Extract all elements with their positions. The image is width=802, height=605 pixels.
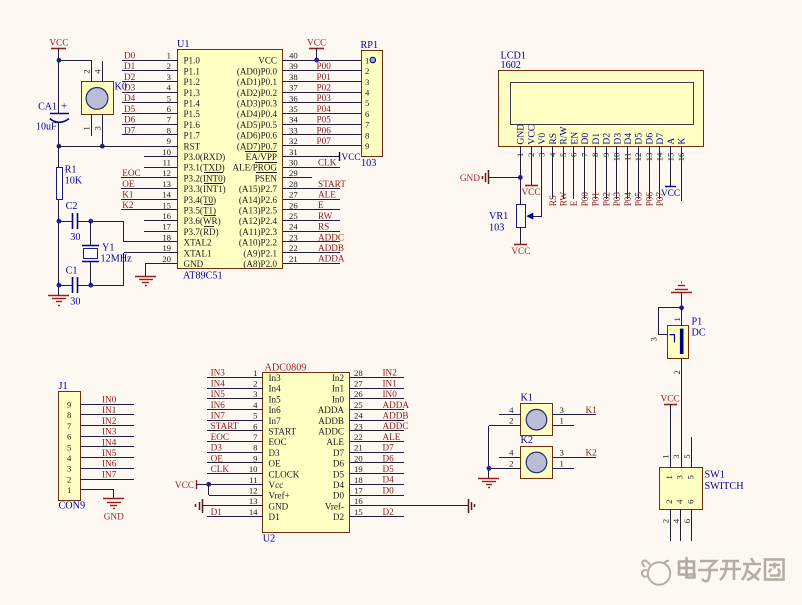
svg-text:In2: In2 bbox=[332, 373, 345, 383]
svg-text:2: 2 bbox=[81, 69, 91, 73]
svg-text:28: 28 bbox=[354, 368, 363, 378]
svg-text:D6: D6 bbox=[333, 459, 345, 469]
svg-text:20: 20 bbox=[354, 453, 363, 463]
svg-text:XTAL2: XTAL2 bbox=[184, 238, 213, 248]
svg-text:K2: K2 bbox=[586, 448, 598, 458]
svg-text:IN2: IN2 bbox=[102, 416, 117, 426]
svg-text:VCC: VCC bbox=[342, 153, 361, 163]
svg-text:IN7: IN7 bbox=[211, 411, 226, 421]
svg-text:ADDB: ADDB bbox=[318, 416, 344, 426]
svg-text:14: 14 bbox=[249, 507, 258, 517]
svg-text:1602: 1602 bbox=[501, 60, 521, 71]
svg-text:30: 30 bbox=[70, 232, 80, 243]
svg-text:21: 21 bbox=[354, 443, 363, 453]
svg-text:9: 9 bbox=[167, 136, 171, 146]
svg-text:VCC: VCC bbox=[307, 39, 326, 49]
svg-text:(AD0)P0.0: (AD0)P0.0 bbox=[237, 66, 278, 76]
svg-text:(AD1)P0.1: (AD1)P0.1 bbox=[237, 77, 277, 87]
svg-text:34: 34 bbox=[289, 115, 298, 125]
svg-text:36: 36 bbox=[289, 93, 298, 103]
svg-text:P1.4: P1.4 bbox=[184, 99, 201, 109]
svg-text:(A12)P2.4: (A12)P2.4 bbox=[239, 216, 278, 226]
svg-text:PSEN: PSEN bbox=[255, 173, 278, 183]
svg-text:CLK: CLK bbox=[318, 157, 337, 167]
svg-text:D2: D2 bbox=[333, 512, 345, 522]
svg-text:3: 3 bbox=[671, 454, 681, 458]
svg-text:VCC: VCC bbox=[521, 188, 540, 198]
svg-text:CLK: CLK bbox=[211, 464, 230, 474]
svg-text:18: 18 bbox=[162, 232, 171, 242]
svg-text:D0: D0 bbox=[580, 133, 591, 145]
svg-text:C1: C1 bbox=[66, 266, 78, 277]
svg-text:8: 8 bbox=[253, 443, 258, 453]
svg-text:D4: D4 bbox=[333, 480, 345, 490]
svg-text:RW: RW bbox=[559, 192, 569, 207]
svg-text:In4: In4 bbox=[269, 384, 282, 394]
svg-text:GND: GND bbox=[460, 174, 480, 184]
svg-text:3: 3 bbox=[674, 475, 684, 479]
svg-text:1: 1 bbox=[660, 454, 670, 458]
svg-text:4: 4 bbox=[253, 400, 258, 410]
svg-text:(A11)P2.3: (A11)P2.3 bbox=[239, 227, 277, 237]
svg-text:K2: K2 bbox=[122, 200, 134, 210]
svg-text:ADDB: ADDB bbox=[383, 411, 409, 421]
svg-text:ALE/PROG: ALE/PROG bbox=[233, 163, 278, 173]
svg-text:P04: P04 bbox=[623, 192, 633, 207]
svg-text:P00: P00 bbox=[317, 61, 332, 71]
svg-text:4: 4 bbox=[509, 448, 514, 458]
svg-text:P1.5: P1.5 bbox=[184, 109, 201, 119]
svg-text:12: 12 bbox=[162, 168, 171, 178]
svg-text:P06: P06 bbox=[644, 192, 654, 207]
svg-text:ADDA: ADDA bbox=[318, 254, 345, 264]
svg-text:22: 22 bbox=[289, 243, 298, 253]
svg-text:D7: D7 bbox=[333, 448, 345, 458]
svg-text:27: 27 bbox=[289, 190, 298, 200]
svg-text:D3: D3 bbox=[211, 443, 223, 453]
svg-text:RW: RW bbox=[318, 211, 333, 221]
svg-text:(A8)P2.0: (A8)P2.0 bbox=[243, 259, 277, 269]
svg-text:(AD4)P0.4: (AD4)P0.4 bbox=[237, 109, 278, 119]
svg-text:VR1: VR1 bbox=[489, 211, 508, 222]
svg-text:XTAL1: XTAL1 bbox=[184, 248, 212, 258]
svg-text:D6: D6 bbox=[124, 115, 136, 125]
svg-text:In0: In0 bbox=[332, 394, 345, 404]
svg-text:EOC: EOC bbox=[269, 437, 287, 447]
svg-text:1: 1 bbox=[560, 458, 564, 468]
svg-text:P1.3: P1.3 bbox=[184, 88, 201, 98]
svg-text:4: 4 bbox=[365, 88, 370, 98]
svg-text:D1: D1 bbox=[269, 512, 280, 522]
svg-text:In3: In3 bbox=[269, 373, 282, 383]
svg-text:2: 2 bbox=[664, 500, 674, 504]
svg-text:4: 4 bbox=[671, 518, 681, 523]
svg-text:16: 16 bbox=[162, 211, 171, 221]
svg-text:16: 16 bbox=[354, 496, 363, 506]
svg-text:6: 6 bbox=[253, 421, 258, 431]
svg-text:10uF: 10uF bbox=[36, 122, 57, 133]
svg-text:2: 2 bbox=[509, 416, 513, 426]
svg-text:19: 19 bbox=[354, 464, 363, 474]
svg-text:IN7: IN7 bbox=[102, 469, 117, 479]
svg-text:13: 13 bbox=[249, 496, 258, 506]
svg-text:8: 8 bbox=[365, 130, 370, 140]
svg-text:P05: P05 bbox=[634, 192, 644, 207]
svg-text:(A14)P2.6: (A14)P2.6 bbox=[239, 195, 278, 205]
svg-text:VCC: VCC bbox=[49, 39, 68, 49]
svg-text:ALE: ALE bbox=[326, 437, 344, 447]
svg-text:12MHz: 12MHz bbox=[101, 254, 133, 265]
svg-text:2: 2 bbox=[167, 61, 171, 71]
svg-text:C2: C2 bbox=[66, 201, 78, 212]
svg-text:(A15)P2.7: (A15)P2.7 bbox=[239, 184, 278, 194]
svg-text:IN2: IN2 bbox=[383, 368, 398, 378]
svg-text:13: 13 bbox=[644, 153, 654, 162]
svg-text:ALE: ALE bbox=[318, 190, 336, 200]
svg-text:P3.3(INT1): P3.3(INT1) bbox=[184, 184, 226, 194]
svg-text:P06: P06 bbox=[317, 125, 332, 135]
svg-text:D2: D2 bbox=[383, 507, 395, 517]
svg-text:4: 4 bbox=[67, 453, 72, 463]
svg-text:9: 9 bbox=[365, 141, 369, 151]
svg-text:V0: V0 bbox=[537, 133, 548, 145]
svg-text:D5: D5 bbox=[333, 469, 345, 479]
svg-text:9: 9 bbox=[253, 453, 257, 463]
svg-text:12: 12 bbox=[249, 486, 258, 496]
svg-text:START: START bbox=[269, 427, 297, 437]
svg-text:D5: D5 bbox=[383, 464, 395, 474]
svg-text:IN1: IN1 bbox=[102, 405, 117, 415]
svg-text:3: 3 bbox=[560, 448, 564, 458]
svg-text:7: 7 bbox=[365, 120, 370, 130]
svg-text:1: 1 bbox=[672, 317, 682, 321]
svg-text:1: 1 bbox=[81, 126, 91, 130]
svg-text:26: 26 bbox=[354, 389, 363, 399]
svg-text:SW1: SW1 bbox=[705, 470, 725, 481]
svg-text:K2: K2 bbox=[521, 435, 533, 446]
svg-text:14: 14 bbox=[162, 190, 171, 200]
svg-text:P3.0(RXD): P3.0(RXD) bbox=[184, 152, 226, 162]
svg-text:P02: P02 bbox=[317, 83, 332, 93]
svg-text:1: 1 bbox=[167, 51, 171, 61]
svg-text:D6: D6 bbox=[383, 453, 395, 463]
svg-text:VCC: VCC bbox=[526, 125, 537, 145]
svg-text:EA/VPP: EA/VPP bbox=[246, 152, 277, 162]
svg-text:VCC: VCC bbox=[175, 481, 194, 491]
svg-text:IN0: IN0 bbox=[383, 389, 398, 399]
svg-text:3: 3 bbox=[649, 337, 659, 341]
svg-text:RS: RS bbox=[318, 222, 329, 232]
svg-text:4: 4 bbox=[674, 499, 684, 504]
svg-text:103: 103 bbox=[489, 223, 504, 234]
svg-text:P3.4(T0): P3.4(T0) bbox=[184, 195, 217, 205]
svg-text:D2: D2 bbox=[602, 133, 613, 145]
svg-text:D1: D1 bbox=[124, 61, 136, 71]
svg-text:2: 2 bbox=[253, 379, 257, 389]
svg-text:8: 8 bbox=[67, 410, 72, 420]
svg-text:P07: P07 bbox=[317, 136, 332, 146]
svg-text:30: 30 bbox=[70, 297, 80, 308]
svg-text:CA1: CA1 bbox=[38, 102, 57, 113]
svg-text:EOC: EOC bbox=[122, 168, 140, 178]
svg-text:21: 21 bbox=[289, 254, 298, 264]
svg-text:9: 9 bbox=[601, 153, 611, 157]
svg-text:AT89C51: AT89C51 bbox=[183, 271, 223, 282]
svg-text:D2: D2 bbox=[124, 72, 136, 82]
svg-text:24: 24 bbox=[289, 222, 298, 232]
svg-text:CLOCK: CLOCK bbox=[269, 469, 300, 479]
svg-text:3: 3 bbox=[560, 405, 564, 415]
svg-text:In6: In6 bbox=[269, 405, 282, 415]
svg-text:P1: P1 bbox=[692, 317, 703, 328]
svg-text:18: 18 bbox=[354, 475, 363, 485]
svg-text:5: 5 bbox=[167, 93, 171, 103]
svg-text:A: A bbox=[666, 138, 677, 145]
svg-text:K1: K1 bbox=[122, 190, 134, 200]
svg-text:6: 6 bbox=[365, 109, 370, 119]
svg-text:CON9: CON9 bbox=[59, 501, 86, 512]
svg-text:P1.2: P1.2 bbox=[184, 77, 201, 87]
svg-text:2: 2 bbox=[526, 153, 536, 157]
svg-text:D5: D5 bbox=[634, 133, 645, 145]
svg-text:5: 5 bbox=[365, 98, 369, 108]
svg-text:7: 7 bbox=[67, 421, 72, 431]
svg-text:P04: P04 bbox=[317, 104, 332, 114]
svg-text:D1: D1 bbox=[211, 507, 223, 517]
svg-text:ADDA: ADDA bbox=[318, 405, 345, 415]
svg-text:11: 11 bbox=[249, 475, 257, 485]
svg-text:7: 7 bbox=[167, 115, 172, 125]
svg-text:K1: K1 bbox=[521, 392, 533, 403]
svg-text:P01: P01 bbox=[317, 72, 332, 82]
svg-text:3: 3 bbox=[365, 77, 369, 87]
svg-text:R/W: R/W bbox=[559, 126, 570, 145]
svg-text:EN: EN bbox=[569, 132, 580, 145]
svg-text:Vcc: Vcc bbox=[269, 480, 284, 490]
svg-text:P03: P03 bbox=[317, 93, 332, 103]
svg-text:29: 29 bbox=[289, 168, 298, 178]
svg-text:5: 5 bbox=[686, 475, 696, 479]
svg-text:38: 38 bbox=[289, 72, 298, 82]
svg-text:IN4: IN4 bbox=[102, 437, 117, 447]
svg-text:IN1: IN1 bbox=[383, 378, 398, 388]
svg-text:OE: OE bbox=[211, 453, 224, 463]
svg-text:GND: GND bbox=[269, 501, 289, 511]
svg-text:13: 13 bbox=[162, 179, 171, 189]
svg-text:24: 24 bbox=[354, 411, 363, 421]
svg-text:3: 3 bbox=[93, 126, 103, 130]
svg-text:D7: D7 bbox=[124, 125, 136, 135]
svg-text:SWITCH: SWITCH bbox=[705, 481, 745, 492]
svg-text:J1: J1 bbox=[59, 381, 68, 392]
svg-text:EOC: EOC bbox=[211, 432, 229, 442]
svg-text:E: E bbox=[569, 200, 579, 206]
svg-text:E: E bbox=[318, 200, 324, 210]
svg-text:Y1: Y1 bbox=[102, 243, 114, 254]
svg-text:P3.6(WR): P3.6(WR) bbox=[184, 216, 221, 226]
svg-text:33: 33 bbox=[289, 125, 298, 135]
svg-text:P1.7: P1.7 bbox=[184, 131, 201, 141]
svg-text:ADDB: ADDB bbox=[318, 243, 344, 253]
svg-text:D4: D4 bbox=[623, 133, 634, 145]
svg-text:K: K bbox=[677, 138, 688, 145]
svg-text:K0: K0 bbox=[115, 82, 127, 93]
svg-text:P3.1(TXD): P3.1(TXD) bbox=[184, 163, 225, 173]
svg-text:30: 30 bbox=[289, 158, 298, 168]
svg-text:15: 15 bbox=[162, 200, 171, 210]
svg-text:D4: D4 bbox=[124, 93, 136, 103]
svg-text:1: 1 bbox=[664, 475, 674, 479]
svg-text:11: 11 bbox=[163, 158, 171, 168]
svg-text:25: 25 bbox=[354, 400, 363, 410]
svg-text:GND: GND bbox=[184, 259, 204, 269]
svg-text:17: 17 bbox=[354, 486, 363, 496]
svg-text:D4: D4 bbox=[383, 475, 395, 485]
svg-text:D7: D7 bbox=[655, 133, 666, 145]
svg-text:10K: 10K bbox=[65, 176, 83, 187]
svg-text:5: 5 bbox=[682, 454, 692, 458]
svg-text:103: 103 bbox=[361, 158, 376, 169]
svg-text:RP1: RP1 bbox=[361, 40, 379, 51]
svg-text:27: 27 bbox=[354, 379, 363, 389]
svg-text:1: 1 bbox=[560, 416, 564, 426]
svg-text:10: 10 bbox=[249, 464, 258, 474]
svg-text:3: 3 bbox=[253, 389, 257, 399]
svg-text:START: START bbox=[211, 421, 239, 431]
svg-text:OE: OE bbox=[122, 179, 135, 189]
svg-text:(A10)P2.2: (A10)P2.2 bbox=[239, 238, 278, 248]
svg-text:P03: P03 bbox=[612, 192, 622, 207]
svg-text:D0: D0 bbox=[124, 50, 136, 60]
svg-text:37: 37 bbox=[289, 83, 298, 93]
svg-text:5: 5 bbox=[67, 442, 71, 452]
svg-text:P05: P05 bbox=[317, 115, 332, 125]
svg-text:D1: D1 bbox=[591, 133, 602, 145]
svg-text:6: 6 bbox=[686, 499, 696, 504]
svg-text:4: 4 bbox=[93, 69, 103, 74]
svg-text:3: 3 bbox=[167, 72, 171, 82]
svg-text:28: 28 bbox=[289, 179, 298, 189]
svg-text:6: 6 bbox=[167, 104, 172, 114]
svg-text:8: 8 bbox=[167, 125, 172, 135]
svg-text:ADDC: ADDC bbox=[318, 427, 344, 437]
svg-text:(AD7)P0.7: (AD7)P0.7 bbox=[237, 141, 278, 151]
svg-text:OE: OE bbox=[269, 459, 282, 469]
svg-text:U2: U2 bbox=[263, 534, 275, 545]
svg-text:23: 23 bbox=[289, 232, 298, 242]
svg-text:IN4: IN4 bbox=[211, 378, 226, 388]
svg-text:2: 2 bbox=[509, 458, 513, 468]
svg-text:(AD5)P0.5: (AD5)P0.5 bbox=[237, 120, 278, 130]
svg-text:In7: In7 bbox=[269, 416, 282, 426]
svg-text:IN5: IN5 bbox=[211, 389, 226, 399]
svg-text:D6: D6 bbox=[645, 133, 656, 145]
svg-text:1: 1 bbox=[67, 485, 71, 495]
svg-text:IN5: IN5 bbox=[102, 448, 117, 458]
svg-text:VCC: VCC bbox=[661, 189, 680, 199]
svg-text:D0: D0 bbox=[333, 491, 345, 501]
svg-text:RS: RS bbox=[548, 133, 559, 145]
svg-text:RS: RS bbox=[548, 195, 558, 206]
svg-text:2: 2 bbox=[660, 519, 670, 523]
svg-text:7: 7 bbox=[253, 432, 258, 442]
svg-text:+: + bbox=[61, 101, 67, 113]
svg-text:1: 1 bbox=[253, 368, 257, 378]
svg-text:(AD6)P0.6: (AD6)P0.6 bbox=[237, 131, 278, 141]
svg-text:IN3: IN3 bbox=[211, 368, 226, 378]
svg-text:P1.1: P1.1 bbox=[184, 66, 200, 76]
svg-text:DC: DC bbox=[692, 328, 706, 339]
svg-text:22: 22 bbox=[354, 432, 363, 442]
svg-text:2: 2 bbox=[365, 66, 369, 76]
svg-text:4: 4 bbox=[509, 405, 514, 415]
svg-text:6: 6 bbox=[67, 432, 72, 442]
svg-text:32: 32 bbox=[289, 136, 298, 146]
svg-text:ADDA: ADDA bbox=[383, 400, 410, 410]
svg-text:5: 5 bbox=[253, 411, 257, 421]
svg-text:17: 17 bbox=[162, 222, 171, 232]
svg-text:2: 2 bbox=[672, 370, 682, 374]
svg-text:IN6: IN6 bbox=[102, 459, 117, 469]
svg-text:RST: RST bbox=[184, 141, 201, 151]
svg-text:IN3: IN3 bbox=[102, 427, 117, 437]
svg-text:40: 40 bbox=[289, 51, 298, 61]
svg-text:P00: P00 bbox=[580, 192, 590, 207]
svg-text:35: 35 bbox=[289, 104, 298, 114]
svg-text:ADDC: ADDC bbox=[318, 232, 344, 242]
svg-text:Vref+: Vref+ bbox=[269, 491, 290, 501]
svg-text:39: 39 bbox=[289, 61, 298, 71]
svg-text:(AD2)P0.2: (AD2)P0.2 bbox=[237, 88, 278, 98]
svg-text:K1: K1 bbox=[586, 405, 598, 415]
svg-text:P1.0: P1.0 bbox=[184, 56, 201, 66]
svg-text:GND: GND bbox=[516, 124, 527, 145]
svg-text:IN0: IN0 bbox=[102, 395, 117, 405]
svg-text:25: 25 bbox=[289, 211, 298, 221]
svg-text:In1: In1 bbox=[332, 384, 344, 394]
svg-text:D3: D3 bbox=[269, 448, 281, 458]
svg-text:U1: U1 bbox=[177, 39, 189, 50]
svg-text:D7: D7 bbox=[383, 443, 395, 453]
svg-text:Vref-: Vref- bbox=[325, 501, 344, 511]
svg-text:START: START bbox=[318, 179, 346, 189]
svg-text:4: 4 bbox=[167, 83, 172, 93]
svg-text:(A13)P2.5: (A13)P2.5 bbox=[239, 206, 278, 216]
svg-text:19: 19 bbox=[162, 243, 171, 253]
svg-text:D3: D3 bbox=[612, 133, 623, 145]
svg-text:In5: In5 bbox=[269, 394, 282, 404]
svg-text:D0: D0 bbox=[383, 485, 395, 495]
svg-text:VCC: VCC bbox=[661, 395, 680, 405]
svg-text:(AD3)P0.3: (AD3)P0.3 bbox=[237, 99, 278, 109]
svg-text:ADDC: ADDC bbox=[383, 421, 409, 431]
svg-text:GND: GND bbox=[104, 513, 124, 523]
svg-text:VCC: VCC bbox=[511, 247, 530, 257]
svg-text:P02: P02 bbox=[601, 192, 611, 207]
svg-text:3: 3 bbox=[67, 464, 71, 474]
svg-text:26: 26 bbox=[289, 200, 298, 210]
svg-text:P3.7(RD): P3.7(RD) bbox=[184, 227, 219, 237]
svg-text:VCC: VCC bbox=[258, 56, 277, 66]
svg-text:(A9)P2.1: (A9)P2.1 bbox=[243, 248, 277, 258]
svg-text:ALE: ALE bbox=[383, 432, 401, 442]
svg-text:P3.2(INT0): P3.2(INT0) bbox=[184, 173, 226, 183]
svg-text:P01: P01 bbox=[591, 192, 601, 207]
svg-text:IN6: IN6 bbox=[211, 400, 226, 410]
svg-text:20: 20 bbox=[162, 254, 171, 264]
svg-text:1: 1 bbox=[365, 55, 369, 65]
svg-text:31: 31 bbox=[289, 147, 298, 157]
